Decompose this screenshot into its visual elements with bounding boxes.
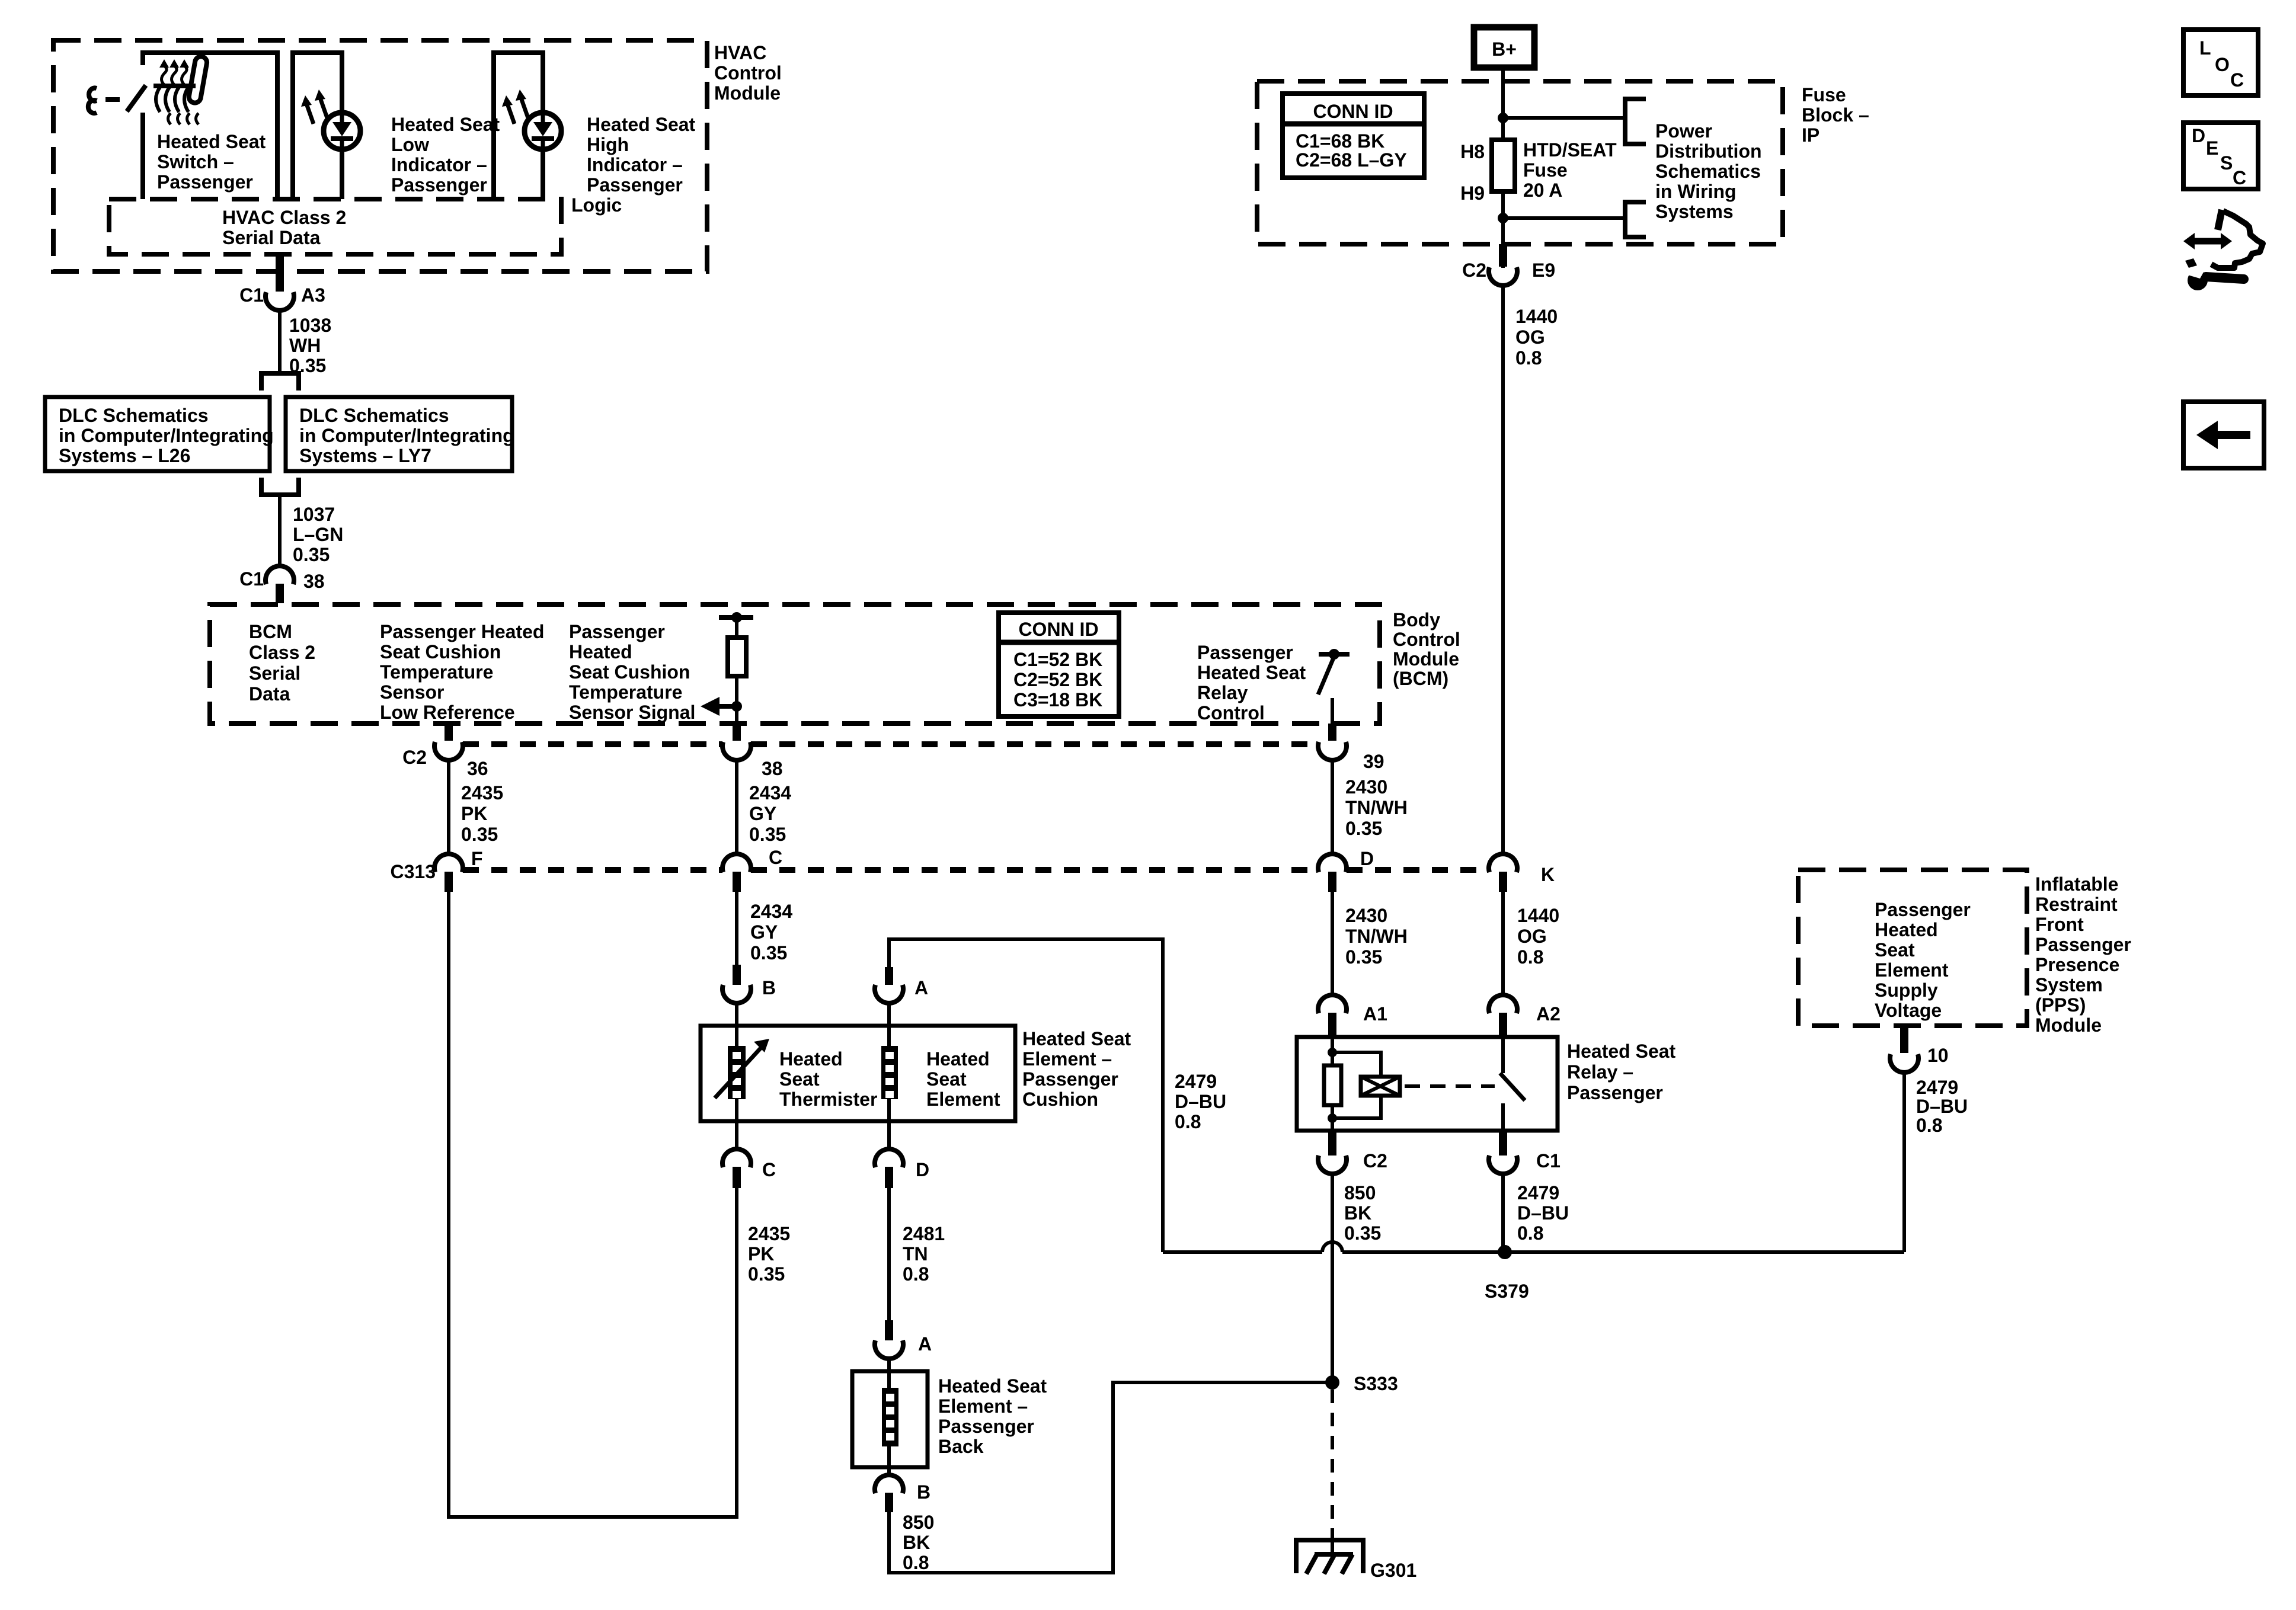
wire 850 BK to S333 bbox=[1331, 1242, 1334, 1382]
svg-text:Sensor: Sensor bbox=[380, 681, 444, 703]
svg-text:E: E bbox=[2206, 137, 2218, 159]
LOC reference box bbox=[2183, 30, 2258, 95]
svg-text:0.35: 0.35 bbox=[1344, 1222, 1381, 1244]
heated seat thermistor bbox=[728, 1046, 746, 1099]
svg-text:HVAC Class 2: HVAC Class 2 bbox=[222, 207, 346, 228]
svg-text:2430: 2430 bbox=[1345, 776, 1387, 798]
svg-text:Logic: Logic bbox=[571, 194, 622, 216]
svg-text:Systems – L26: Systems – L26 bbox=[59, 445, 190, 466]
svg-text:Passenger: Passenger bbox=[938, 1416, 1034, 1437]
svg-text:E9: E9 bbox=[1532, 260, 1555, 281]
splice S333 bbox=[1325, 1375, 1339, 1390]
Heated Seat Low Indicator branch bbox=[293, 53, 342, 199]
svg-text:in Wiring: in Wiring bbox=[1655, 181, 1737, 202]
svg-text:Heated Seat: Heated Seat bbox=[1567, 1041, 1676, 1062]
relay coil resistor bbox=[1331, 1037, 1334, 1052]
svg-text:Low Reference: Low Reference bbox=[380, 702, 515, 723]
svg-text:Heated Seat: Heated Seat bbox=[1022, 1028, 1131, 1049]
Fuse Block CONN ID box bbox=[1283, 94, 1424, 178]
svg-text:Heated: Heated bbox=[779, 1048, 843, 1070]
svg-text:C1: C1 bbox=[239, 568, 264, 590]
wire 2481 TN bbox=[887, 1188, 891, 1320]
svg-text:D: D bbox=[916, 1159, 929, 1180]
svg-text:Systems: Systems bbox=[1655, 201, 1734, 222]
svg-text:Seat: Seat bbox=[926, 1068, 967, 1090]
svg-text:Front: Front bbox=[2035, 914, 2084, 935]
svg-text:HTD/SEAT: HTD/SEAT bbox=[1523, 139, 1617, 161]
svg-text:Thermister: Thermister bbox=[779, 1089, 877, 1110]
wire from C313 F down to loop bbox=[449, 892, 737, 1517]
connector relay pin A1 bbox=[1318, 995, 1347, 1013]
svg-text:Heated: Heated bbox=[569, 641, 632, 662]
svg-text:F: F bbox=[471, 848, 483, 869]
svg-text:36: 36 bbox=[467, 758, 488, 779]
Heated Seat High Indicator branch bbox=[494, 53, 543, 199]
connector C2 pin 36 bbox=[445, 724, 453, 741]
svg-text:D–BU: D–BU bbox=[1916, 1096, 1968, 1117]
svg-text:C2=68 L–GY: C2=68 L–GY bbox=[1296, 149, 1407, 171]
BCM CONN ID box bbox=[999, 613, 1119, 716]
svg-text:Fuse: Fuse bbox=[1802, 84, 1846, 105]
wire 1440 OG upper bbox=[1501, 284, 1505, 856]
svg-text:2479: 2479 bbox=[1175, 1071, 1217, 1092]
svg-text:L–GN: L–GN bbox=[293, 524, 343, 545]
svg-text:C3=18 BK: C3=18 BK bbox=[1013, 689, 1102, 710]
svg-text:BK: BK bbox=[1344, 1202, 1371, 1224]
wire 2479 D-BU to PPS bbox=[1902, 1071, 1906, 1252]
svg-text:2435: 2435 bbox=[461, 782, 503, 804]
splice S379 bbox=[1498, 1245, 1512, 1259]
svg-text:2430: 2430 bbox=[1345, 905, 1387, 926]
svg-text:0.8: 0.8 bbox=[903, 1263, 929, 1285]
LED high indicator bbox=[525, 113, 561, 149]
svg-text:Relay –: Relay – bbox=[1567, 1061, 1633, 1083]
svg-text:O: O bbox=[2215, 54, 2230, 75]
svg-text:Cushion: Cushion bbox=[1022, 1089, 1098, 1110]
wire to power distribution lower bracket bbox=[1503, 216, 1625, 220]
dashed wire S333 to ground bbox=[1331, 1390, 1334, 1536]
back navigation arrow box bbox=[2183, 402, 2264, 468]
DLC Schematics LY7 box bbox=[286, 397, 512, 471]
svg-text:Serial Data: Serial Data bbox=[222, 227, 321, 248]
svg-text:Heated Seat: Heated Seat bbox=[157, 131, 266, 152]
svg-text:Passenger: Passenger bbox=[587, 174, 683, 196]
relay coil parallel branch bbox=[1332, 1052, 1381, 1077]
ground G301 bbox=[1296, 1540, 1363, 1548]
svg-text:Presence: Presence bbox=[2035, 954, 2119, 975]
svg-text:TN/WH: TN/WH bbox=[1345, 926, 1408, 947]
BCM relay control switch bbox=[1319, 652, 1350, 657]
wire to power distribution upper bracket bbox=[1503, 116, 1625, 120]
LED low photon arrows bbox=[320, 98, 327, 118]
svg-text:Seat Cushion: Seat Cushion bbox=[380, 641, 501, 662]
svg-text:Class 2: Class 2 bbox=[249, 642, 315, 663]
svg-text:Module: Module bbox=[714, 82, 781, 104]
svg-text:HVAC: HVAC bbox=[714, 42, 766, 63]
svg-text:Heated: Heated bbox=[926, 1048, 990, 1070]
svg-text:BCM: BCM bbox=[249, 621, 292, 642]
svg-text:1440: 1440 bbox=[1515, 306, 1558, 327]
heated seat element cushion symbol bbox=[881, 1046, 898, 1099]
wire below fuse bbox=[1501, 191, 1505, 268]
svg-text:C2=52 BK: C2=52 BK bbox=[1013, 669, 1102, 690]
svg-text:OG: OG bbox=[1517, 926, 1547, 947]
split bracket to DLC references bbox=[261, 373, 299, 391]
svg-text:0.35: 0.35 bbox=[293, 544, 330, 565]
wire 2430 TN/WH upper bbox=[1331, 758, 1334, 856]
svg-text:Restraint: Restraint bbox=[2035, 894, 2118, 915]
svg-text:IP: IP bbox=[1802, 124, 1819, 146]
svg-text:DLC Schematics: DLC Schematics bbox=[59, 405, 209, 426]
connector C313 pin C bbox=[722, 854, 751, 872]
svg-text:Heated Seat: Heated Seat bbox=[938, 1375, 1047, 1397]
svg-text:D–BU: D–BU bbox=[1517, 1202, 1569, 1224]
svg-text:OG: OG bbox=[1515, 327, 1545, 348]
svg-text:2434: 2434 bbox=[749, 782, 791, 804]
svg-text:Indicator –: Indicator – bbox=[391, 154, 487, 175]
svg-text:C2: C2 bbox=[402, 747, 427, 768]
wire B+ to fuse block bbox=[1501, 68, 1505, 140]
svg-text:Body: Body bbox=[1393, 609, 1440, 630]
wire 1037 L-GN bbox=[278, 495, 282, 568]
svg-text:DLC Schematics: DLC Schematics bbox=[299, 405, 449, 426]
wiring harness navigation icon bbox=[2191, 238, 2225, 245]
svg-text:C: C bbox=[2230, 69, 2244, 91]
Body Control Module dashed box bbox=[210, 604, 1380, 724]
svg-text:Seat: Seat bbox=[779, 1068, 820, 1090]
svg-text:Element: Element bbox=[926, 1089, 1000, 1110]
svg-text:Element –: Element – bbox=[1022, 1048, 1112, 1070]
connector C2 pin E9 bbox=[1499, 244, 1507, 267]
svg-text:0.8: 0.8 bbox=[903, 1552, 929, 1573]
svg-text:20 A: 20 A bbox=[1523, 180, 1562, 201]
Heated Seat Element Passenger Back box bbox=[852, 1371, 928, 1467]
svg-text:0.8: 0.8 bbox=[1916, 1115, 1942, 1136]
svg-text:Schematics: Schematics bbox=[1655, 161, 1761, 182]
svg-text:C1: C1 bbox=[1536, 1150, 1560, 1172]
wire from HVAC to C1 A3 bbox=[276, 254, 284, 292]
heated seat element back symbol bbox=[882, 1388, 898, 1446]
svg-text:Supply: Supply bbox=[1875, 980, 1938, 1001]
svg-text:GY: GY bbox=[750, 921, 778, 943]
svg-text:10: 10 bbox=[1927, 1045, 1949, 1066]
connector element cushion pin A bbox=[885, 967, 893, 985]
svg-text:Seat Cushion: Seat Cushion bbox=[569, 661, 690, 683]
2479 D-BU bus wire bbox=[1163, 1250, 1322, 1254]
svg-text:Switch –: Switch – bbox=[157, 151, 234, 172]
svg-text:A3: A3 bbox=[301, 284, 325, 306]
connector element back pin B bbox=[887, 1446, 891, 1477]
connector relay pin C1 bbox=[1499, 1131, 1507, 1156]
wire 850 BK 0.35 bbox=[1331, 1172, 1334, 1242]
svg-text:H8: H8 bbox=[1460, 141, 1485, 162]
svg-text:C1=52 BK: C1=52 BK bbox=[1013, 649, 1102, 670]
svg-text:S333: S333 bbox=[1354, 1373, 1398, 1394]
svg-text:Passenger: Passenger bbox=[1567, 1082, 1663, 1103]
svg-text:0.8: 0.8 bbox=[1175, 1111, 1201, 1132]
svg-text:Distribution: Distribution bbox=[1655, 140, 1762, 162]
svg-text:S379: S379 bbox=[1485, 1281, 1529, 1302]
svg-text:Control: Control bbox=[1197, 702, 1265, 724]
svg-text:0.8: 0.8 bbox=[1517, 1222, 1543, 1244]
svg-text:0.35: 0.35 bbox=[1345, 946, 1382, 968]
switch linkage dash bbox=[105, 97, 120, 102]
wire from back element B to S333 bbox=[889, 1382, 1328, 1573]
fuse HTD/SEAT 20A bbox=[1492, 140, 1515, 191]
svg-text:Passenger: Passenger bbox=[391, 174, 487, 196]
svg-text:Passenger: Passenger bbox=[157, 171, 253, 193]
svg-text:Seat: Seat bbox=[1875, 939, 1915, 961]
svg-text:High: High bbox=[587, 134, 629, 155]
svg-text:Power: Power bbox=[1655, 120, 1712, 142]
heated seat icon bbox=[154, 84, 196, 88]
svg-text:B+: B+ bbox=[1492, 39, 1517, 60]
relay switch bbox=[1501, 1037, 1505, 1073]
svg-text:2481: 2481 bbox=[903, 1223, 945, 1244]
svg-text:38: 38 bbox=[762, 758, 783, 779]
BCM internal sensor resistor bbox=[719, 615, 753, 620]
connector C1 pin A3 bbox=[266, 292, 294, 311]
svg-text:Block –: Block – bbox=[1802, 104, 1869, 126]
svg-text:39: 39 bbox=[1363, 751, 1384, 772]
svg-text:A: A bbox=[914, 977, 928, 998]
svg-text:H9: H9 bbox=[1460, 183, 1485, 204]
svg-text:D: D bbox=[2192, 125, 2205, 146]
wire loop from element A to 2479 bus bbox=[889, 939, 1163, 1252]
svg-text:2434: 2434 bbox=[750, 901, 792, 922]
connector relay pin C2 bbox=[1328, 1131, 1336, 1156]
connector element back pin A bbox=[885, 1320, 893, 1340]
svg-text:1038: 1038 bbox=[289, 315, 331, 336]
LED high photon arrows bbox=[521, 98, 528, 118]
junction dot above fuse bbox=[1498, 113, 1508, 123]
svg-text:0.35: 0.35 bbox=[750, 942, 787, 964]
wrench icon bbox=[2188, 270, 2208, 290]
svg-text:BK: BK bbox=[903, 1532, 930, 1553]
svg-text:38: 38 bbox=[303, 571, 325, 592]
svg-text:B: B bbox=[762, 977, 776, 998]
svg-text:K: K bbox=[1541, 864, 1555, 885]
svg-text:C1=68 BK: C1=68 BK bbox=[1296, 130, 1384, 152]
wire 2434 GY lower bbox=[735, 892, 738, 965]
svg-text:1037: 1037 bbox=[293, 504, 335, 525]
junction dot below fuse bbox=[1498, 213, 1508, 223]
connector pin 38 BCM bbox=[733, 724, 741, 741]
svg-text:TN: TN bbox=[903, 1243, 928, 1265]
Fuse Block IP dashed box bbox=[1257, 81, 1783, 244]
HVAC Class 2 Serial Data logic box bbox=[109, 199, 561, 254]
svg-text:Heated Seat: Heated Seat bbox=[587, 114, 696, 135]
svg-text:Passenger: Passenger bbox=[1875, 899, 1971, 920]
connector element cushion pin D bbox=[887, 1099, 891, 1151]
connector C313 pin F bbox=[434, 854, 463, 872]
svg-text:Heated: Heated bbox=[1875, 919, 1938, 940]
sensor signal arrow bbox=[731, 701, 742, 712]
svg-text:C: C bbox=[762, 1159, 776, 1180]
connector PPS pin 10 bbox=[1900, 1026, 1908, 1053]
svg-text:Inflatable: Inflatable bbox=[2035, 873, 2118, 895]
connector C313 pin D bbox=[1318, 854, 1347, 872]
svg-text:C: C bbox=[769, 847, 782, 868]
wire 2434 GY upper bbox=[735, 758, 738, 856]
svg-text:C2: C2 bbox=[1363, 1150, 1387, 1172]
svg-text:G301: G301 bbox=[1370, 1560, 1416, 1581]
svg-text:Sensor Signal: Sensor Signal bbox=[569, 702, 695, 723]
svg-text:2479: 2479 bbox=[1916, 1077, 1958, 1098]
svg-text:Passenger: Passenger bbox=[569, 621, 665, 642]
svg-text:PK: PK bbox=[461, 803, 487, 824]
Heated Seat Relay box bbox=[1297, 1037, 1558, 1131]
svg-text:0.35: 0.35 bbox=[1345, 818, 1382, 839]
svg-text:D: D bbox=[1360, 848, 1374, 869]
svg-text:Voltage: Voltage bbox=[1875, 1000, 1942, 1021]
svg-text:Element: Element bbox=[1875, 959, 1949, 981]
svg-text:A1: A1 bbox=[1363, 1003, 1387, 1025]
connector C1 pin 38 to BCM bbox=[266, 566, 294, 584]
svg-text:850: 850 bbox=[1344, 1182, 1376, 1204]
HVAC Control Module dashed box bbox=[53, 40, 707, 271]
svg-text:Temperature: Temperature bbox=[569, 681, 682, 703]
svg-text:in Computer/Integrating: in Computer/Integrating bbox=[59, 425, 274, 446]
svg-text:Systems – LY7: Systems – LY7 bbox=[299, 445, 431, 466]
svg-text:Passenger: Passenger bbox=[1022, 1068, 1118, 1090]
connector C313 row dotted line bbox=[463, 867, 722, 873]
Heated Seat Switch box bbox=[143, 53, 277, 199]
svg-text:0.35: 0.35 bbox=[749, 824, 786, 845]
svg-text:Fuse: Fuse bbox=[1523, 159, 1568, 181]
svg-text:Element –: Element – bbox=[938, 1395, 1028, 1417]
connector element cushion pin C bbox=[735, 1099, 738, 1151]
svg-text:S: S bbox=[2220, 152, 2233, 174]
svg-text:C1: C1 bbox=[239, 284, 264, 306]
svg-text:Module: Module bbox=[1393, 648, 1459, 670]
merge bracket below DLC boxes bbox=[261, 478, 299, 495]
svg-text:850: 850 bbox=[903, 1512, 934, 1533]
svg-text:Low: Low bbox=[391, 134, 429, 155]
svg-text:Temperature: Temperature bbox=[380, 661, 493, 683]
battery B+ feed box bbox=[1474, 27, 1534, 68]
svg-text:CONN ID: CONN ID bbox=[1313, 101, 1393, 122]
svg-text:L: L bbox=[2199, 37, 2211, 59]
svg-text:Heated Seat: Heated Seat bbox=[1197, 662, 1306, 683]
svg-text:A2: A2 bbox=[1536, 1003, 1560, 1025]
DESC reference box bbox=[2183, 123, 2258, 189]
wire from sensor to pin 38 bbox=[735, 706, 738, 724]
connector relay pin A2 bbox=[1489, 995, 1517, 1013]
svg-text:Passenger Heated: Passenger Heated bbox=[380, 621, 544, 642]
wire hop over bus bbox=[1322, 1242, 1342, 1252]
svg-text:GY: GY bbox=[749, 803, 776, 824]
svg-text:Passenger: Passenger bbox=[2035, 934, 2131, 955]
BCM connector row dotted line bbox=[463, 741, 722, 747]
wire 1038 WH bbox=[278, 309, 282, 373]
LED low indicator bbox=[324, 113, 360, 149]
svg-text:Relay: Relay bbox=[1197, 682, 1248, 703]
svg-text:PK: PK bbox=[748, 1243, 774, 1265]
svg-text:Indicator –: Indicator – bbox=[587, 154, 683, 175]
svg-text:Control: Control bbox=[1393, 629, 1460, 650]
svg-text:0.35: 0.35 bbox=[461, 824, 498, 845]
svg-text:A: A bbox=[918, 1333, 932, 1355]
relay actuating dashed link bbox=[1405, 1084, 1495, 1088]
svg-text:TN/WH: TN/WH bbox=[1345, 797, 1408, 818]
svg-text:C: C bbox=[2233, 167, 2246, 188]
connector C313 pin K bbox=[1489, 854, 1517, 872]
svg-text:Heated Seat: Heated Seat bbox=[391, 114, 500, 135]
DLC Schematics L26 box bbox=[45, 397, 270, 471]
svg-text:B: B bbox=[917, 1481, 930, 1503]
wire 2479 D-BU right bbox=[1501, 1172, 1505, 1252]
svg-text:0.35: 0.35 bbox=[748, 1263, 785, 1285]
svg-text:C313: C313 bbox=[391, 861, 436, 882]
svg-text:2435: 2435 bbox=[748, 1223, 790, 1244]
svg-text:(PPS): (PPS) bbox=[2035, 994, 2086, 1016]
connector pin 39 BCM bbox=[1328, 724, 1336, 741]
svg-text:Control: Control bbox=[714, 62, 782, 84]
wire 2435 PK upper bbox=[447, 758, 450, 856]
svg-text:1440: 1440 bbox=[1517, 905, 1559, 926]
svg-text:Serial: Serial bbox=[249, 662, 300, 684]
connector element cushion pin B bbox=[733, 965, 741, 985]
svg-text:Module: Module bbox=[2035, 1014, 2102, 1036]
wire 1440 OG lower bbox=[1501, 892, 1505, 997]
svg-text:0.8: 0.8 bbox=[1517, 946, 1543, 968]
switch lever bbox=[127, 85, 146, 111]
svg-text:Data: Data bbox=[249, 683, 290, 705]
svg-text:System: System bbox=[2035, 974, 2103, 996]
wire 2430 TN/WH lower bbox=[1331, 892, 1334, 997]
svg-text:Passenger: Passenger bbox=[1197, 642, 1293, 663]
Heated Seat Element Passenger Cushion box bbox=[701, 1026, 1015, 1121]
svg-text:(BCM): (BCM) bbox=[1393, 668, 1448, 689]
svg-text:D–BU: D–BU bbox=[1175, 1091, 1226, 1112]
svg-text:C2: C2 bbox=[1462, 260, 1486, 281]
relay solenoid coil symbol bbox=[1361, 1077, 1400, 1096]
svg-text:2479: 2479 bbox=[1517, 1182, 1559, 1204]
svg-text:0.8: 0.8 bbox=[1515, 347, 1542, 369]
svg-text:Back: Back bbox=[938, 1436, 984, 1457]
PPS module dashed box bbox=[1798, 870, 2027, 1026]
switch pole symbol bbox=[88, 88, 97, 114]
svg-text:CONN ID: CONN ID bbox=[1018, 619, 1098, 640]
svg-text:in Computer/Integrating: in Computer/Integrating bbox=[299, 425, 514, 446]
svg-text:WH: WH bbox=[289, 335, 321, 356]
